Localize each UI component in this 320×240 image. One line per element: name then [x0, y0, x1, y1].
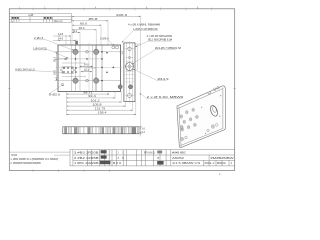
svg-text:24.0: 24.0: [84, 64, 90, 67]
leader 2-Ø1.5: [46, 40, 74, 51]
small box right of notes: [54, 154, 70, 156]
svg-text:831-J: 831-J: [205, 162, 216, 165]
right gap hole top: [120, 51, 123, 54]
side view: [124, 43, 135, 102]
svg-text:19mm x2: 19mm x2: [54, 19, 63, 23]
dim 196.0: [72, 16, 141, 18]
revision table marks: [12, 17, 52, 19]
top dimension stack: [53, 17, 141, 41]
strip hatch group 2: [91, 127, 101, 134]
iso annotation: [147, 95, 184, 99]
svg-text:2-Ø6.6: 2-Ø6.6: [100, 36, 109, 40]
annotation 4xØ6.6 counterbore: [128, 23, 160, 31]
inner dim lines near detail: [62, 63, 96, 77]
svg-text:B 2 #: B 2 #: [113, 162, 122, 165]
corner hole A2 shaded: [94, 49, 99, 54]
bolt column lines: [58, 45, 121, 91]
notes block: [10, 154, 58, 165]
rotated dim labels left: [53, 56, 57, 75]
side view small hole: [129, 57, 131, 59]
svg-text:4 x Ø6-M6 MBNLRBM: 4 x Ø6-M6 MBNLRBM: [147, 34, 173, 38]
leader 8-Ø2.3H7: [37, 71, 64, 73]
strip hatch group 3: [106, 127, 126, 134]
dim arrowheads: [56, 16, 141, 134]
svg-text:8-Ø2.3H7(±0.2): 8-Ø2.3H7(±0.2): [15, 67, 35, 71]
small dark detail above plate: [75, 41, 78, 45]
svg-text:10.2: 10.2: [84, 69, 90, 72]
svg-text:85.8: 85.8: [89, 17, 99, 21]
svg-text:8-Ø2.6: 8-Ø2.6: [49, 92, 61, 96]
svg-text:+GB: +GB: [28, 13, 34, 17]
svg-text:A5052: A5052: [172, 157, 185, 160]
svg-text:4 x Ø6.6 MBNL RBMW#B: 4 x Ø6.6 MBNL RBMW#B: [128, 23, 160, 27]
short dim arrow y58.9: [57, 58, 67, 60]
inner column line: [101, 45, 103, 91]
annotation 4xM6: [147, 34, 173, 42]
svg-text:SPU(N-2): SPU(N-2): [144, 151, 155, 154]
dim 105.8: [67, 105, 126, 107]
svg-text:2 x Ø 6.6C MBW#: 2 x Ø 6.6C MBW#: [147, 95, 184, 99]
zone tick right: [233, 87, 236, 89]
side view wall lines: [126, 43, 132, 102]
strip shaded blocks 2: [87, 127, 104, 133]
dim 14.8: [53, 35, 71, 37]
svg-text:48.0: 48.0: [79, 26, 85, 30]
zone digits top: [19, 8, 199, 10]
node dots: [65, 51, 114, 81]
iso boss ring: [209, 104, 219, 117]
iso holes near TR: [214, 86, 220, 91]
dim 24.6: [53, 39, 76, 41]
iso view outer silhouette: [177, 86, 225, 148]
iso annotation leader: [140, 93, 147, 99]
svg-text:8601: 8601: [217, 162, 227, 165]
side view bottom hole: [128, 94, 132, 98]
side view centerline: [129, 41, 131, 104]
svg-text:1 #B1 11R20B: 1 #B1 11R20B: [74, 162, 99, 165]
iso notch on top edge: [208, 91, 211, 94]
bottom dim labels: [84, 90, 107, 114]
corner hole A1 shaded: [73, 49, 78, 54]
strip right dim: [139, 125, 142, 136]
svg-text:1/1.5 #BMW t=9: 1/1.5 #BMW t=9: [172, 162, 201, 165]
small dots right column: [106, 52, 108, 54]
dim 131.75: [67, 109, 133, 111]
extension lines for top dims: [66, 16, 141, 127]
leader Ø22: [132, 50, 155, 64]
svg-text:#M#B MBC: #M#B MBC: [172, 152, 186, 155]
left annotation 8-Ø2.3H7: [15, 67, 35, 71]
detail rect edge arrows: [60, 69, 62, 70]
strip dark block 4: [132, 127, 137, 133]
dim 84.71: [67, 93, 109, 95]
dim 101.2: [67, 101, 122, 103]
iso bottom inner edge: [180, 128, 223, 145]
strip hatch group 1: [69, 127, 84, 134]
svg-text:30.2: 30.2: [53, 56, 57, 62]
iso small dots: [201, 95, 221, 134]
svg-text:1. #BM MM#B ±0.1 (BM#RB#M ±0.1: 1. #BM MM#B ±0.1 (BM#RB#M ±0.1 MB#W): [10, 158, 58, 161]
title block texts: [74, 151, 235, 165]
svg-text:Ø12 NM.DPMB 6.5#: Ø12 NM.DPMB 6.5#: [148, 38, 173, 42]
leader Ø14.9: [133, 69, 158, 81]
dim 138.4: [67, 113, 136, 115]
inner row line: [58, 58, 102, 60]
side view hole centerline ticks: [125, 49, 135, 96]
title block bold marks: [100, 150, 164, 164]
detail rect: [62, 67, 74, 74]
iso holes bottom right: [185, 124, 218, 139]
strip shaded blocks 3: [113, 127, 123, 133]
dim 60.0: [72, 24, 101, 26]
svg-text:NOTES: NOTES: [11, 154, 17, 157]
strip shaded blocks 1: [64, 127, 77, 133]
front view strip: [63, 127, 139, 134]
svg-text:Ø22-Ø6.7 MBW#1.5#: Ø22-Ø6.7 MBW#1.5#: [155, 46, 182, 50]
bottom dimension stack: [67, 94, 136, 114]
zone tick left: [8, 87, 11, 89]
leader 4xM6: [135, 41, 148, 47]
svg-text:3 #B3 1R20B: 3 #B3 1R20B: [74, 152, 99, 155]
zone ticks bottom: [33, 169, 110, 172]
bottom dim extension lines: [67, 91, 136, 115]
leader 4xØ6.6: [122, 30, 134, 42]
svg-text:24.6: 24.6: [58, 37, 64, 41]
hole cluster 8x: [63, 67, 77, 73]
leader 1-Ø4.5H7: [49, 50, 68, 58]
border frame: [9, 9, 234, 171]
left vertical dim line: [55, 52, 59, 81]
small hole bottom-left: [61, 83, 63, 85]
main top view plate: [58, 45, 121, 91]
svg-text:#M#B#MBW: #M#B#MBW: [211, 157, 235, 160]
svg-text:2-Ø1.5: 2-Ø1.5: [34, 36, 44, 40]
svg-text:14.8: 14.8: [58, 32, 64, 36]
svg-text:1-Ø4.5H7(2): 1-Ø4.5H7(2): [33, 46, 47, 50]
title block table: [70, 150, 235, 166]
side view shaded hole: [128, 85, 132, 89]
dim 14.2: [72, 32, 80, 34]
leader 8-Ø2.6: [49, 86, 62, 94]
svg-text:2. #BM#RB MBR#M BM#RB: 2. #BM#RB MBR#M BM#RB: [10, 162, 41, 165]
horizontal centerline: [56, 66, 123, 68]
dim 48.0: [72, 29, 96, 31]
iso left inner edge: [179, 107, 181, 147]
svg-text:2 #B2 12R5B: 2 #B2 12R5B: [74, 157, 99, 160]
revision table top-left: [9, 14, 71, 23]
left annotation 2-Ø1.5: [34, 36, 44, 40]
zone ticks top: [33, 8, 212, 11]
dim 85.8: [72, 20, 108, 22]
left annotation 1-Ø4.5H7: [33, 46, 47, 50]
shaded hole on right edge: [118, 85, 122, 89]
corner hole A3 shaded: [73, 78, 78, 83]
side view big hole: [126, 63, 134, 71]
svg-text:138.4: 138.4: [98, 111, 107, 115]
side view top extension lines: [135, 44, 141, 70]
rule above notes: [9, 151, 70, 153]
center holes: [86, 51, 89, 54]
corner hole A4 shaded: [94, 78, 99, 83]
vertical centerline: [88, 43, 90, 94]
svg-text:L-Ø11.5 DP.MB6.5#: L-Ø11.5 DP.MB6.5#: [133, 27, 158, 31]
iso mid grid holes: [181, 108, 198, 131]
dim 93.4: [67, 97, 116, 99]
iso left column holes: [180, 115, 184, 141]
side view top hole: [128, 47, 132, 51]
top dim labels: [58, 13, 128, 41]
iso top inner edge: [178, 89, 223, 109]
top-right hole pair 2-Ø6.6: [112, 46, 115, 49]
inner dim 24.0 with arrows: [80, 66, 93, 71]
iso right inner edge: [222, 88, 224, 129]
svg-text:60.0: 60.0: [80, 21, 87, 25]
leader 2-Ø6.6: [109, 40, 114, 46]
leader arrowheads: [62, 41, 142, 95]
svg-text:196.0: 196.0: [116, 13, 128, 17]
